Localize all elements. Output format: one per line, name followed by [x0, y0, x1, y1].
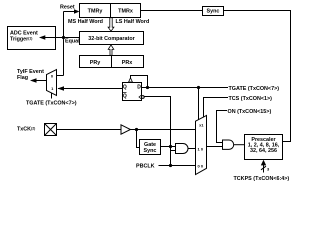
svg-text:Sync: Sync	[144, 148, 157, 154]
mux clock select (big)	[196, 115, 207, 174]
flip-flop CK bubble	[141, 96, 144, 99]
svg-text:Sync: Sync	[207, 9, 220, 15]
wire Equal horizontal	[45, 37, 80, 39]
svg-text:TGATE (TxCON<7>): TGATE (TxCON<7>)	[26, 100, 77, 106]
svg-text:LS Half Word: LS Half Word	[116, 19, 150, 25]
register TMRy|TMRx	[80, 4, 141, 18]
svg-text:Q: Q	[123, 84, 127, 90]
svg-text:MS Half Word: MS Half Word	[68, 19, 103, 25]
flip-flop box	[123, 83, 142, 101]
svg-text:Equal: Equal	[65, 39, 80, 45]
wire GateSync output	[161, 146, 176, 148]
wire PBCLK to AND lower input	[171, 150, 176, 152]
node PBCLK junction	[169, 164, 172, 167]
bus slash TCKPS	[261, 166, 266, 170]
marker flip-flop top triangle	[129, 78, 133, 82]
wire buffer to big mux x1 input	[130, 129, 195, 131]
pin TxCK	[45, 124, 57, 136]
svg-text:TCS (TxCON<1>): TCS (TxCON<1>)	[229, 96, 273, 102]
node D junction	[146, 86, 149, 89]
arrow PR to comparator hollow up	[108, 45, 114, 55]
wire TCS	[204, 98, 229, 118]
wire TMR to Sync	[141, 10, 203, 12]
wire feedback loop over flip-flop	[131, 76, 148, 88]
wire Q to mux input 1	[58, 88, 123, 90]
wire Sync to prescaler output feedback	[224, 11, 291, 142]
arrowheads	[30, 9, 266, 165]
svg-text:1 0: 1 0	[198, 146, 204, 151]
wire ON	[217, 111, 228, 143]
wire TCKPS into prescaler	[263, 165, 265, 173]
wire CK net down to AND gate	[144, 97, 170, 166]
wire AND2 output to prescaler	[234, 144, 245, 146]
arrowhead Reset into TMR	[74, 9, 80, 14]
svg-text:PBCLK: PBCLK	[136, 163, 155, 169]
svg-text:TGATE (TxCON<7>): TGATE (TxCON<7>)	[229, 86, 280, 92]
svg-text:32, 64, 256: 32, 64, 256	[250, 148, 277, 154]
arrowhead into ADC box	[39, 35, 45, 40]
svg-text:Reset: Reset	[60, 5, 75, 11]
gate AND2	[223, 140, 234, 149]
node GateSync output junction	[169, 145, 172, 148]
marker flip-flop clock wedge	[139, 95, 142, 99]
arrowhead TCKPS up	[261, 160, 266, 166]
wire AND1 output to mux	[188, 148, 196, 150]
buffer triangle TxCK	[121, 125, 130, 134]
register PRy|PRx	[80, 56, 144, 68]
wire TGATE select stub	[51, 93, 53, 99]
box 32-bit Comparator	[80, 32, 144, 45]
box ADC Event Trigger	[8, 27, 56, 50]
node TxCK buffer junction	[135, 128, 138, 131]
wire TGATE drop to big mux	[198, 88, 200, 121]
mux TyIF small	[47, 70, 57, 96]
box Sync	[203, 7, 224, 16]
box Gate Sync	[140, 140, 161, 155]
svg-text:Flag: Flag	[17, 75, 28, 81]
arrow MS/LS half word hollow down	[108, 18, 132, 82]
svg-text:PRy: PRy	[90, 60, 101, 66]
wire TxCK to Gate Sync	[137, 130, 140, 148]
wire Reset	[64, 11, 76, 13]
wire big mux output	[207, 146, 223, 148]
wire PBCLK	[159, 165, 196, 167]
svg-text:x1: x1	[199, 123, 204, 128]
svg-text:ON (TxCON<15>): ON (TxCON<15>)	[228, 109, 272, 115]
svg-text:32-bit Comparator: 32-bit Comparator	[88, 36, 135, 42]
node Equal junction	[62, 36, 65, 39]
svg-text:TMRy: TMRy	[88, 8, 103, 14]
arrowhead Q into mux1	[58, 86, 65, 91]
svg-text:D: D	[137, 84, 141, 90]
wire TyIF mux output	[33, 80, 47, 82]
arrowhead TyIF output	[30, 78, 37, 83]
svg-text:TCKPS (TxCON<6:4>): TCKPS (TxCON<6:4>)	[234, 176, 290, 182]
gate AND1	[176, 144, 189, 154]
svg-text:Q: Q	[123, 94, 127, 100]
wire Equal to mux0 input	[57, 75, 64, 77]
svg-text:TMRx: TMRx	[118, 8, 133, 14]
node TGATE select junction	[197, 86, 200, 89]
wire TGATE to D input	[142, 87, 229, 89]
svg-text:PRx: PRx	[122, 60, 133, 66]
box Prescaler	[245, 135, 283, 160]
wire TxCK to buffer	[57, 129, 122, 131]
wire Equal vertical net	[63, 12, 65, 76]
svg-text:0 0: 0 0	[198, 163, 204, 168]
